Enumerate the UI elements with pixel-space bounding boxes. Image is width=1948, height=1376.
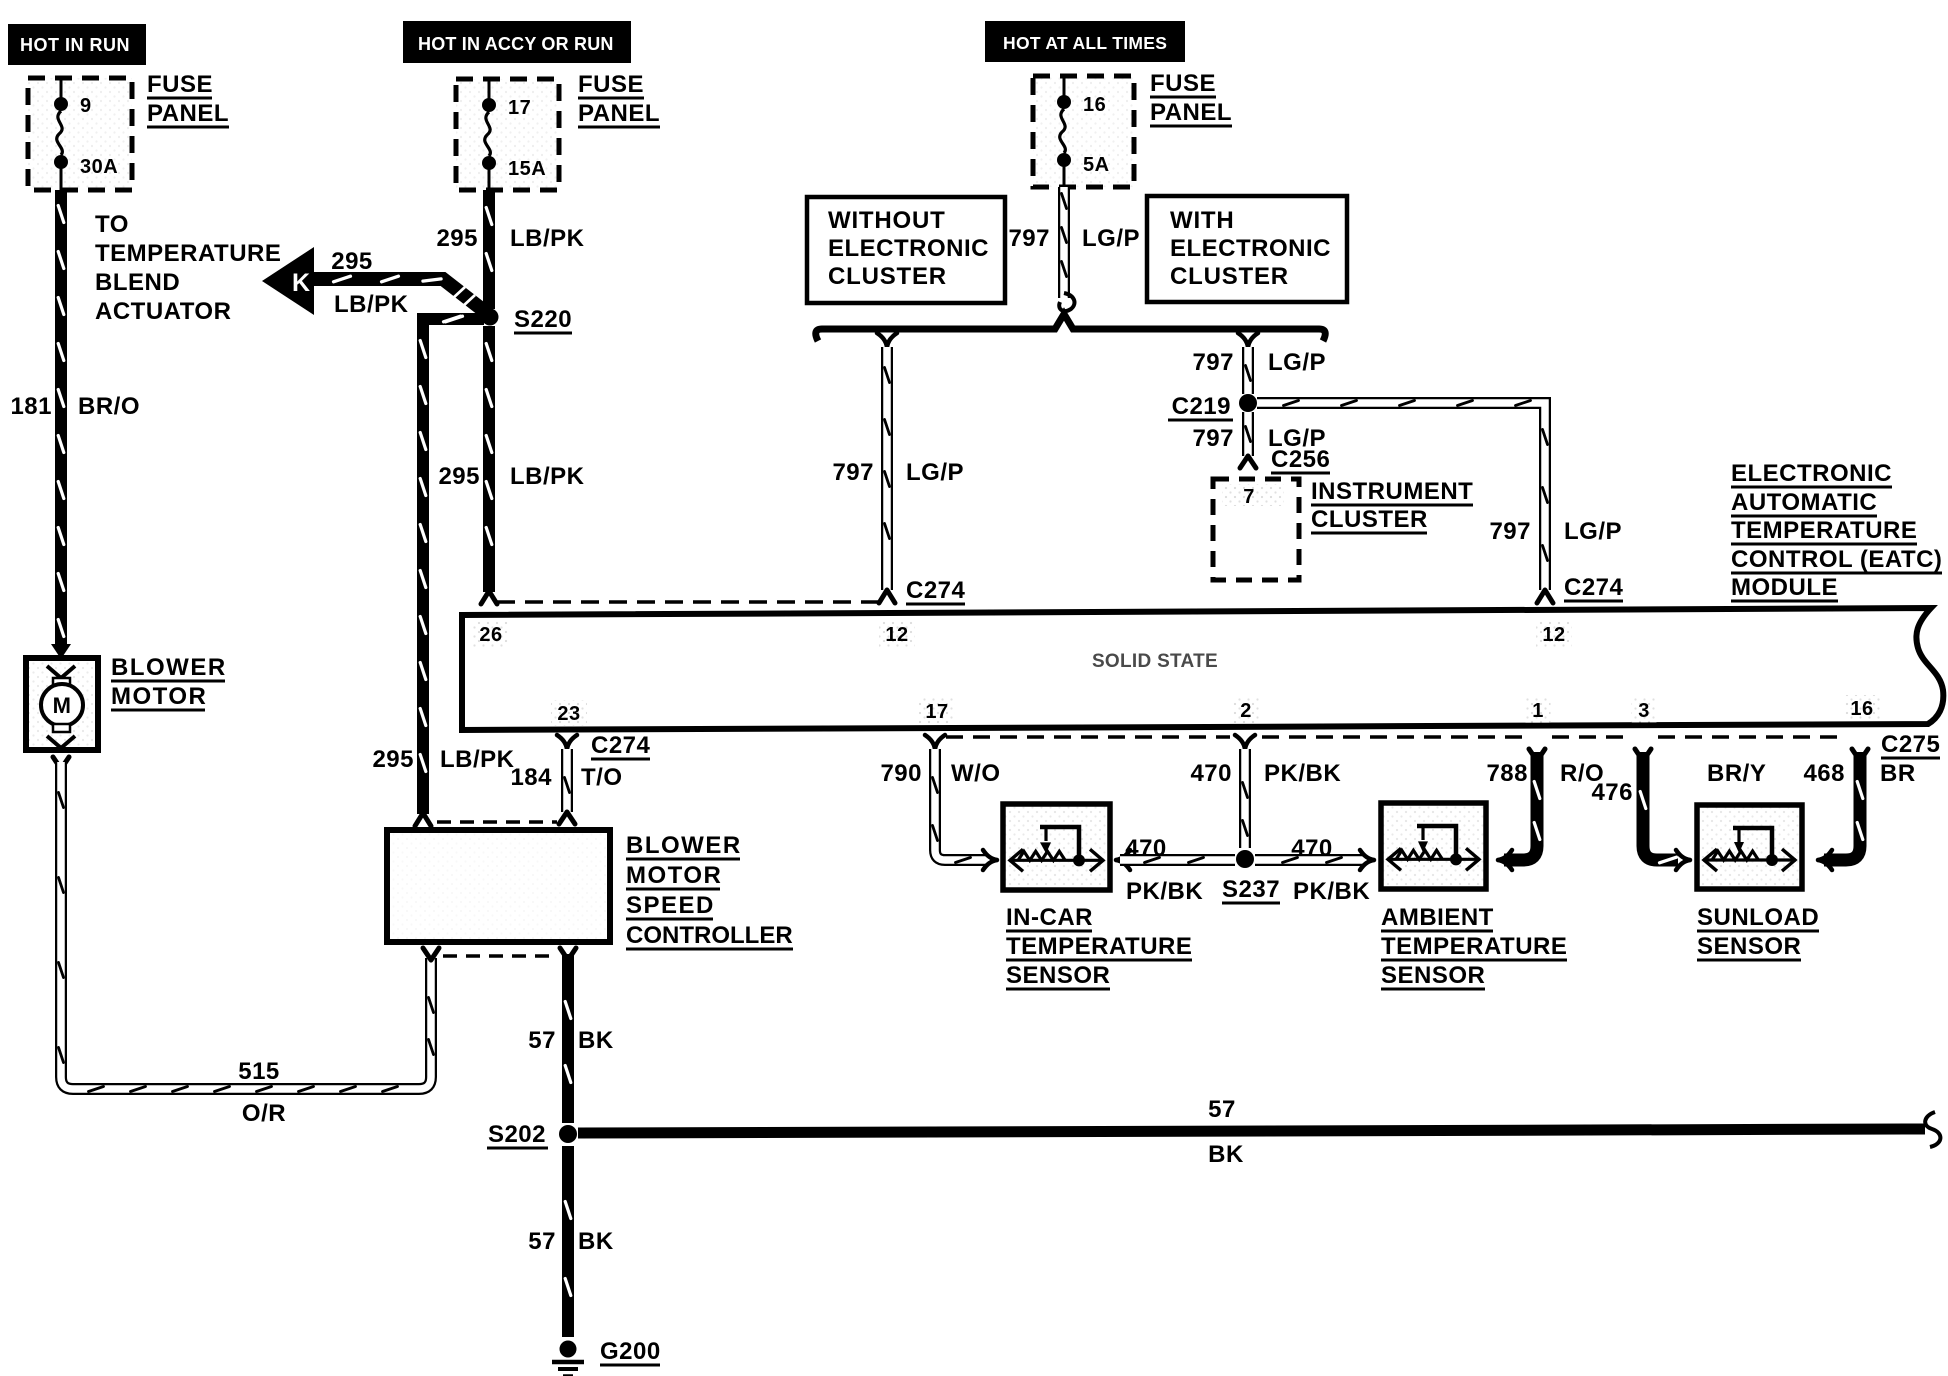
svg-text:O/R: O/R: [242, 1100, 286, 1127]
connector fork at bus (left branch): [877, 333, 897, 347]
connector C274 fork (right pin 12): [1537, 590, 1553, 603]
svg-text:C219: C219: [1172, 393, 1231, 420]
svg-text:470: 470: [1125, 835, 1167, 862]
EATC pin 12 (right): [1536, 621, 1572, 647]
svg-text:470: 470: [1291, 835, 1333, 862]
svg-text:MOTOR: MOTOR: [111, 683, 207, 710]
splice C219: [1239, 394, 1257, 412]
svg-text:57: 57: [1208, 1096, 1236, 1123]
svg-text:BLOWER: BLOWER: [111, 654, 227, 681]
wire label 470 PK/BK (right segment): [1291, 835, 1370, 905]
EATC pin 17: [919, 698, 955, 724]
wire label 470 PK/BK (left segment): [1125, 835, 1203, 905]
break squiggle at right end: [1925, 1112, 1940, 1147]
svg-text:SENSOR: SENSOR: [1697, 933, 1801, 960]
svg-text:LG/P: LG/P: [1268, 349, 1326, 376]
EATC pin 3: [1632, 697, 1657, 723]
svg-text:1: 1: [1532, 700, 1544, 722]
svg-text:C274: C274: [591, 732, 651, 759]
wire 797 LG/P C219 right to EATC pin 12 (C274): [1257, 401, 1548, 591]
svg-text:57: 57: [528, 1228, 556, 1255]
connector C274 fork (pin 12): [879, 590, 895, 603]
wire label 295 LB/PK (arrow): [331, 248, 408, 318]
svg-text:INSTRUMENT: INSTRUMENT: [1311, 478, 1473, 505]
svg-text:BLOWER: BLOWER: [626, 832, 742, 859]
svg-text:TEMPERATURE: TEMPERATURE: [95, 240, 281, 267]
connector flare at speed controller top left: [415, 813, 431, 826]
wire 470 PK/BK in-car sensor to S237: [1120, 858, 1235, 863]
svg-text:W/O: W/O: [951, 760, 1001, 787]
svg-text:26: 26: [479, 624, 502, 646]
connector at ambient sensor right: [1498, 850, 1512, 870]
svg-text:15A: 15A: [508, 158, 546, 180]
wire 797 LG/P fuse F3 to splice bus: [1062, 187, 1067, 298]
svg-text:MOTOR: MOTOR: [626, 862, 722, 889]
ambient temperature sensor: [1381, 803, 1486, 889]
instrument cluster label: [1311, 478, 1473, 533]
fuse panel label 1: [147, 71, 229, 127]
in-car temperature sensor: [1003, 804, 1110, 890]
wire label 470 PK/BK (pin 2): [1190, 760, 1341, 787]
svg-text:TO: TO: [95, 211, 129, 238]
connector at ambient sensor left: [1360, 850, 1374, 870]
wire 470 PK/BK EATC pin 2 to S237: [1243, 749, 1248, 848]
sunload sensor label: [1697, 904, 1819, 960]
svg-text:5A: 5A: [1083, 154, 1110, 176]
wire label 515 O/R: [238, 1058, 286, 1127]
svg-text:16: 16: [1083, 94, 1106, 116]
label C219: [1168, 393, 1233, 420]
svg-text:C274: C274: [906, 577, 966, 604]
splice S237: [1236, 850, 1254, 868]
wire label 476 BR/Y: [1591, 760, 1766, 806]
svg-text:16: 16: [1850, 698, 1873, 720]
connector C256 fork: [1240, 456, 1256, 468]
arrow K to temperature blend actuator: [262, 247, 488, 315]
EATC module outline: [462, 608, 1943, 730]
EATC module name label: [1731, 460, 1942, 601]
svg-text:IN-CAR: IN-CAR: [1006, 904, 1093, 931]
svg-text:S237: S237: [1222, 876, 1280, 903]
wire label 468 BR: [1803, 760, 1915, 787]
sunload sensor: [1697, 805, 1802, 889]
wire label 295 LB/PK (upper): [436, 225, 584, 252]
wire label 797 LG/P (right branch): [1489, 518, 1622, 545]
svg-text:797: 797: [1192, 349, 1234, 376]
svg-text:M: M: [53, 693, 72, 718]
splice S220: [482, 309, 499, 326]
wire 470 PK/BK S237 to ambient sensor: [1255, 858, 1366, 863]
svg-text:23: 23: [557, 703, 580, 725]
svg-text:PANEL: PANEL: [147, 100, 229, 127]
svg-text:515: 515: [238, 1058, 280, 1085]
blower motor label: [111, 654, 227, 710]
wire label 295 LB/PK (lower): [372, 746, 514, 773]
svg-text:788: 788: [1486, 760, 1528, 787]
in-car temperature sensor label: [1006, 904, 1192, 989]
svg-text:CLUSTER: CLUSTER: [1170, 263, 1289, 290]
wire 476 BR/Y EATC pin 3 to sunload sensor: [1640, 752, 1678, 863]
svg-text:WITHOUT: WITHOUT: [828, 207, 946, 234]
power label HOT IN ACCY OR RUN: [403, 21, 631, 63]
svg-text:AMBIENT: AMBIENT: [1381, 904, 1494, 931]
svg-text:SPEED: SPEED: [626, 892, 715, 919]
connector at in-car sensor left: [983, 850, 997, 870]
svg-text:470: 470: [1190, 760, 1232, 787]
wire label 797 LG/P (fuse 16): [1008, 225, 1140, 252]
svg-text:295: 295: [372, 746, 414, 773]
svg-text:ELECTRONIC: ELECTRONIC: [1731, 460, 1892, 487]
svg-text:BLEND: BLEND: [95, 269, 180, 296]
svg-text:G200: G200: [600, 1338, 661, 1365]
cluster option boxes: WITHOUT ELECTRONIC CLUSTER: [807, 197, 1005, 303]
blower motor bottom connector: [53, 757, 69, 769]
svg-text:BR/O: BR/O: [78, 393, 140, 420]
wire 57 BK speed controller to S202: [565, 954, 571, 1123]
connector C274 fork (pin 23): [557, 735, 577, 749]
wire label 184 T/O: [510, 764, 622, 791]
svg-text:PANEL: PANEL: [1150, 99, 1232, 126]
svg-text:790: 790: [880, 760, 922, 787]
svg-text:SUNLOAD: SUNLOAD: [1697, 904, 1819, 931]
svg-text:FUSE: FUSE: [147, 71, 213, 98]
svg-text:295: 295: [436, 225, 478, 252]
svg-text:476: 476: [1591, 779, 1633, 806]
fuse panel label 2: [578, 71, 660, 127]
svg-text:797: 797: [1192, 425, 1234, 452]
connector at in-car sensor right: [1116, 850, 1130, 870]
arrow into blower motor: [51, 644, 71, 659]
svg-text:BR/Y: BR/Y: [1707, 760, 1766, 787]
svg-text:HOT IN RUN: HOT IN RUN: [20, 35, 130, 55]
svg-text:ELECTRONIC: ELECTRONIC: [1170, 235, 1331, 262]
wire 184 T/O EATC pin 23 to speed controller: [565, 749, 570, 812]
svg-text:CONTROLLER: CONTROLLER: [626, 922, 793, 949]
svg-text:LB/PK: LB/PK: [510, 463, 585, 490]
svg-text:BK: BK: [1208, 1141, 1244, 1168]
svg-text:FUSE: FUSE: [1150, 70, 1216, 97]
ground G200: [552, 1341, 584, 1376]
connector fork at pin 2: [1235, 735, 1255, 749]
svg-text:CLUSTER: CLUSTER: [828, 263, 947, 290]
svg-text:17: 17: [925, 701, 948, 723]
svg-text:HOT AT ALL TIMES: HOT AT ALL TIMES: [1003, 33, 1167, 53]
fuse F2 (fuse panel, HOT IN ACCY OR RUN, 17 / 15A): [456, 79, 559, 190]
EATC pin 12 (left): [879, 621, 915, 647]
EATC pin 1: [1526, 697, 1551, 723]
svg-text:SENSOR: SENSOR: [1381, 962, 1485, 989]
svg-text:2: 2: [1240, 700, 1252, 722]
ambient temperature sensor label: [1381, 904, 1567, 989]
svg-text:PK/BK: PK/BK: [1264, 760, 1341, 787]
fuse F3 (fuse panel, HOT AT ALL TIMES, 16 / 5A): [1033, 76, 1134, 187]
connector C275/C274 dashed line below module: [946, 735, 1230, 739]
svg-text:FUSE: FUSE: [578, 71, 644, 98]
wire label 797 LG/P (left branch): [832, 459, 964, 486]
wire label 181 BR/O: [10, 393, 140, 420]
svg-text:T/O: T/O: [581, 764, 623, 791]
svg-text:12: 12: [885, 624, 908, 646]
wire label 797 LG/P (below C219): [1192, 425, 1326, 452]
power label HOT AT ALL TIMES: [985, 21, 1185, 62]
svg-text:TEMPERATURE: TEMPERATURE: [1006, 933, 1192, 960]
connector flare at speed controller bottom right: [560, 948, 576, 960]
connector flare at pin 1: [1529, 749, 1545, 761]
svg-text:BR: BR: [1880, 760, 1916, 787]
svg-text:PANEL: PANEL: [578, 100, 660, 127]
svg-text:C256: C256: [1271, 446, 1330, 473]
svg-text:797: 797: [1008, 225, 1050, 252]
wire 295 LB/PK fuse F2 to S220: [486, 190, 492, 309]
svg-text:797: 797: [832, 459, 874, 486]
svg-text:57: 57: [528, 1027, 556, 1054]
svg-text:9: 9: [80, 95, 92, 117]
blower motor speed controller box: [387, 830, 610, 942]
wire 295 LB/PK S220 down to EATC pin 26: [486, 326, 492, 592]
splice bus bar: [816, 314, 1326, 341]
wire 57 BK S202 to right (off page): [578, 1129, 1925, 1133]
wire 515 O/R blower motor to speed controller: [59, 762, 434, 1092]
svg-text:CLUSTER: CLUSTER: [1311, 506, 1428, 533]
svg-text:C275: C275: [1881, 731, 1940, 758]
wire label 57 BK (right run): [1208, 1096, 1244, 1168]
connector at speed controller bottom left: [423, 948, 439, 960]
connector at sunload sensor right: [1818, 850, 1832, 870]
EATC pin 16: [1844, 695, 1880, 721]
wire 57 BK S202 to G200: [565, 1146, 571, 1337]
EATC pin 26: [473, 621, 509, 647]
label S202: [487, 1121, 548, 1148]
speed controller label: [626, 832, 793, 949]
svg-text:30A: 30A: [80, 156, 118, 178]
svg-text:PK/BK: PK/BK: [1126, 878, 1203, 905]
fuse panel label 3: [1150, 70, 1232, 126]
svg-text:AUTOMATIC: AUTOMATIC: [1731, 489, 1877, 516]
svg-text:BK: BK: [578, 1228, 614, 1255]
hook at bus: [1059, 293, 1074, 311]
fuse F1 (fuse panel, HOT IN RUN, 9 / 30A): [28, 78, 132, 190]
wire 797 LG/P bus to C219: [1246, 347, 1251, 394]
connector fork at pin 17: [925, 735, 945, 749]
svg-text:HOT IN ACCY OR RUN: HOT IN ACCY OR RUN: [418, 34, 614, 54]
wire label 797 LG/P (above C219): [1192, 349, 1326, 376]
svg-text:17: 17: [508, 97, 531, 119]
svg-text:SENSOR: SENSOR: [1006, 962, 1110, 989]
svg-text:7: 7: [1243, 486, 1255, 508]
wire label 788 R/O: [1486, 760, 1604, 787]
svg-text:184: 184: [510, 764, 552, 791]
wire 790 W/O EATC pin 17 to in-car temp sensor: [933, 749, 989, 863]
svg-text:468: 468: [1803, 760, 1845, 787]
wire 797 LG/P C219 to C256: [1246, 412, 1251, 456]
connector fork at bus (right branch): [1238, 333, 1258, 347]
wire label 57 BK (upper): [528, 1027, 614, 1054]
speed controller bottom dashed connector: [443, 954, 557, 958]
svg-text:295: 295: [438, 463, 480, 490]
svg-text:797: 797: [1489, 518, 1531, 545]
wire label 790 W/O: [880, 760, 1000, 787]
svg-text:K: K: [292, 269, 311, 297]
svg-text:BK: BK: [578, 1027, 614, 1054]
svg-text:LG/P: LG/P: [1082, 225, 1140, 252]
speed controller top dashed connector: [437, 820, 557, 824]
svg-text:ACTUATOR: ACTUATOR: [95, 298, 231, 325]
svg-text:TEMPERATURE: TEMPERATURE: [1731, 517, 1917, 544]
svg-text:LB/PK: LB/PK: [334, 291, 409, 318]
svg-text:LB/PK: LB/PK: [510, 225, 585, 252]
wire 295 LB/PK S220 branch to speed controller: [420, 316, 484, 814]
svg-text:LG/P: LG/P: [906, 459, 964, 486]
svg-text:C274: C274: [1564, 574, 1624, 601]
wire 468 BR EATC pin 16 to sunload sensor: [1824, 752, 1863, 860]
svg-text:PK/BK: PK/BK: [1293, 878, 1370, 905]
connector flare at pin 16 (C275): [1852, 749, 1868, 761]
svg-text:CONTROL (EATC): CONTROL (EATC): [1731, 546, 1942, 573]
svg-text:LB/PK: LB/PK: [440, 746, 515, 773]
connector C274 pin 26 flare: [481, 591, 497, 604]
wire label 57 BK (lower): [528, 1228, 614, 1255]
connector flare at pin 3: [1635, 749, 1651, 761]
power label HOT IN RUN: [8, 24, 146, 65]
svg-text:3: 3: [1638, 700, 1650, 722]
EATC pin 23: [551, 700, 587, 726]
instrument cluster box (dashed): [1213, 479, 1299, 580]
connector C274 dashed line (module top): [497, 600, 878, 604]
wire 797 LG/P bus to EATC pin 12 (C274): [885, 347, 890, 590]
EATC pin 2: [1234, 697, 1259, 723]
svg-text:MODULE: MODULE: [1731, 574, 1838, 601]
svg-text:S220: S220: [514, 306, 572, 333]
svg-text:TEMPERATURE: TEMPERATURE: [1381, 933, 1567, 960]
svg-text:181: 181: [10, 393, 52, 420]
wire label 295 LB/PK (middle): [438, 463, 584, 490]
cluster option boxes: WITH ELECTRONIC CLUSTER: [1147, 196, 1347, 302]
svg-text:SOLID STATE: SOLID STATE: [1092, 651, 1218, 672]
svg-text:ELECTRONIC: ELECTRONIC: [828, 235, 989, 262]
svg-text:S202: S202: [488, 1121, 546, 1148]
svg-text:12: 12: [1542, 624, 1565, 646]
connector at sunload sensor left: [1676, 850, 1690, 870]
svg-text:295: 295: [331, 248, 373, 275]
wire 788 R/O EATC pin 1 to ambient sensor: [1504, 752, 1540, 860]
label TO TEMPERATURE BLEND ACTUATOR: [95, 211, 281, 325]
svg-text:LG/P: LG/P: [1564, 518, 1622, 545]
svg-text:WITH: WITH: [1170, 207, 1235, 234]
blower motor M1: [26, 658, 98, 750]
splice S202: [559, 1125, 577, 1143]
wire 181 BR/O fuse F1 to blower motor: [58, 190, 64, 644]
